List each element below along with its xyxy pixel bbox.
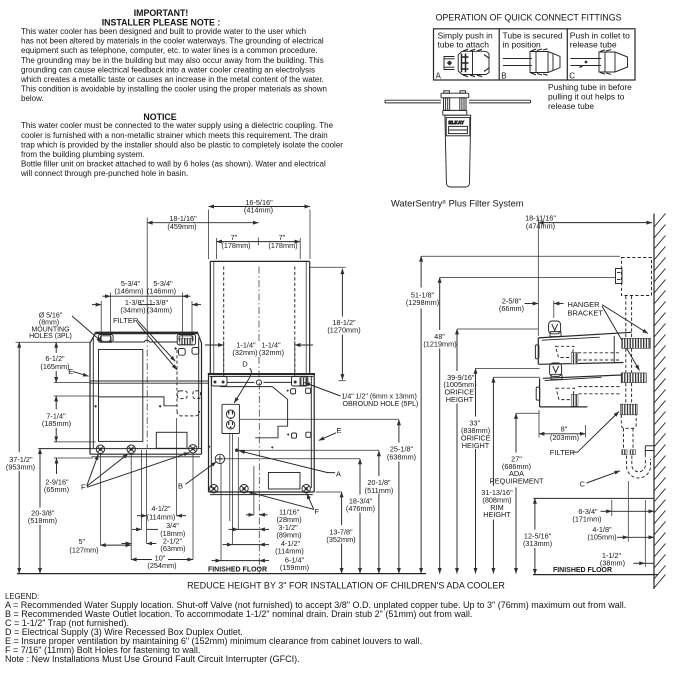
label obround hole note — [305, 383, 419, 408]
svg-text:equipment such as telephone, c: equipment such as telephone, computer, e… — [21, 46, 318, 55]
fitting drawing cell B — [503, 49, 560, 75]
note header IMPORTANT — [102, 8, 221, 27]
dim 31-13/16 rim — [481, 377, 540, 573]
dim 18-3/4 — [225, 459, 376, 574]
dim 2-1/2 left — [122, 536, 186, 553]
lower cooler drain dashed — [556, 388, 575, 399]
dim 4-1/2 right — [223, 539, 304, 555]
right cabinet top brackets — [212, 376, 308, 386]
svg-text:REQUIREMENT: REQUIREMENT — [490, 477, 544, 486]
waste outlet B symbol — [215, 454, 224, 463]
hanger bracket upper hatched — [622, 338, 651, 348]
svg-text:B: B — [501, 71, 506, 80]
hanger bracket lower hatched — [621, 373, 646, 383]
svg-text:(518mm): (518mm) — [28, 516, 57, 525]
svg-text:(203mm): (203mm) — [550, 433, 579, 442]
dim 37-1/2 — [6, 342, 90, 573]
pipe couplings above trap — [622, 450, 627, 455]
svg-text:release tube: release tube — [570, 39, 617, 49]
svg-text:WaterSentry® Plus Filter Syste: WaterSentry® Plus Filter System — [391, 199, 524, 209]
supply pipes dashed — [624, 296, 634, 450]
svg-text:tube to attach: tube to attach — [438, 39, 490, 49]
filter mounting rail — [385, 100, 531, 103]
dim 7 inch pair — [217, 233, 301, 259]
installer note paragraph — [20, 27, 327, 103]
dim 6-3/4 — [572, 500, 654, 523]
cell captions — [438, 31, 631, 50]
filter cartridge body — [445, 115, 471, 187]
svg-text:HEIGHT: HEIGHT — [462, 441, 490, 450]
dim 12-5/16 — [523, 498, 552, 574]
cell letters A B C — [436, 71, 576, 80]
dim 51-1/8 — [406, 256, 439, 573]
svg-text:E: E — [68, 367, 73, 376]
bottle filler chase — [210, 261, 309, 378]
fitting drawing cell C — [571, 50, 628, 75]
svg-text:HEIGHT: HEIGHT — [446, 395, 474, 404]
svg-text:pulling it out helps to: pulling it out helps to — [548, 92, 625, 102]
svg-text:has not been altered by materi: has not been altered by materials in the… — [21, 37, 324, 46]
right cabinet interior contour — [220, 387, 287, 438]
svg-text:(1270mm): (1270mm) — [327, 326, 360, 335]
svg-text:Bottle filler unit on bracket: Bottle filler unit on bracket attached t… — [21, 160, 326, 169]
svg-text:1/4" 1/2" (6mm x 13mm): 1/4" 1/2" (6mm x 13mm) — [342, 393, 417, 400]
fitting drawing cell A — [444, 49, 489, 76]
svg-text:(89mm): (89mm) — [276, 530, 301, 539]
svg-text:INSTALLER PLEASE NOTE :: INSTALLER PLEASE NOTE : — [102, 17, 221, 27]
svg-text:(65mm): (65mm) — [44, 485, 69, 494]
filter head bracket — [441, 91, 469, 115]
dim 18-1/2 vertical — [311, 267, 361, 381]
dim 3-1/2 right — [229, 523, 302, 540]
upper cooler bubbler — [549, 321, 561, 337]
svg-text:below.: below. — [21, 94, 44, 103]
dim 2-5/8 — [499, 297, 564, 318]
bottom dim verticals right cabinet — [221, 383, 259, 574]
right cabinet louver — [268, 473, 300, 490]
svg-text:(146mm): (146mm) — [147, 286, 176, 295]
recessed supply box dashed — [616, 258, 652, 296]
svg-text:(171mm): (171mm) — [572, 514, 601, 523]
left cabinet outline — [38, 332, 201, 457]
svg-text:Ø 5/16": Ø 5/16" — [39, 312, 63, 319]
svg-text:OPERATION OF QUICK CONNECT FIT: OPERATION OF QUICK CONNECT FITTINGS — [435, 13, 621, 23]
left cabinet filter recess dashed — [177, 350, 201, 416]
svg-text:which creates a metallic taste: which creates a metallic taste or causes… — [20, 75, 324, 84]
svg-text:(953mm): (953mm) — [6, 462, 35, 471]
dim 33 orifice — [461, 368, 540, 573]
left cabinet louver — [156, 432, 187, 448]
pushing tube note — [548, 82, 632, 111]
left cabinet bolt holes — [96, 445, 197, 454]
svg-text:OBROUND HOLE (5PL): OBROUND HOLE (5PL) — [343, 401, 419, 408]
right cabinet outline — [208, 374, 315, 495]
dim 4-1/2 left — [137, 504, 186, 521]
svg-text:Pushing tube in before: Pushing tube in before — [548, 82, 632, 92]
svg-text:(159mm): (159mm) — [280, 563, 309, 572]
lower cooler body — [536, 374, 640, 407]
dim 25-1/8 — [240, 419, 416, 573]
dim 5-3/4 pair — [101, 279, 192, 341]
svg-text:(63mm): (63mm) — [160, 544, 185, 553]
dim 18-11/16 — [525, 213, 652, 336]
dim 27 ADA — [490, 413, 544, 573]
inline filter hatched head — [620, 404, 637, 415]
svg-text:C: C — [580, 479, 586, 488]
dim 8 inch — [539, 410, 586, 442]
svg-text:A: A — [436, 71, 442, 80]
svg-text:Note : New Installations Must: Note : New Installations Must Use Ground… — [5, 654, 300, 664]
svg-text:A: A — [336, 469, 341, 478]
svg-text:FINISHED FLOOR: FINISHED FLOOR — [208, 566, 267, 573]
svg-text:REDUCE HEIGHT BY 3" FOR INSTAL: REDUCE HEIGHT BY 3" FOR INSTALLATION OF … — [187, 581, 505, 591]
dim 48 — [423, 278, 456, 574]
dim 6-1/2 — [40, 342, 90, 382]
upper cooler body — [535, 332, 631, 364]
right cabinet obround holes — [291, 388, 311, 438]
dim 39-9/16 orifice — [443, 329, 538, 574]
label D with leader — [234, 360, 251, 403]
dim 20-3/8 — [28, 449, 57, 574]
svg-text:E: E — [337, 426, 342, 435]
svg-text:(459mm): (459mm) — [167, 222, 196, 231]
svg-text:(352mm): (352mm) — [326, 535, 355, 544]
trap dashed — [627, 456, 651, 479]
svg-text:cooler is furnished with a non: cooler is furnished with a non-metallic … — [21, 131, 328, 140]
svg-text:This water cooler has been des: This water cooler has been designed and … — [21, 27, 306, 36]
dim 16-5/16 top — [209, 198, 310, 259]
inline filter body dashed — [621, 415, 636, 429]
dim 13-7/8 — [316, 492, 356, 574]
dim 3/4 left — [132, 521, 185, 538]
reference dots — [94, 340, 210, 448]
notice paragraph — [20, 121, 343, 178]
svg-text:(66mm): (66mm) — [499, 304, 524, 313]
dim 11/16 — [246, 507, 302, 524]
svg-text:FILTER: FILTER — [113, 316, 139, 325]
svg-text:B: B — [178, 482, 183, 491]
wall line with hatching — [654, 214, 666, 590]
dim 1-1/2 — [600, 500, 654, 568]
svg-text:grounding can cause electrical: grounding can cause electrical feedback … — [21, 65, 315, 74]
datum line — [533, 497, 654, 499]
reference line to outlet — [440, 277, 616, 279]
svg-text:This condition is avoidable by: This condition is avoidable by installin… — [21, 85, 327, 94]
reference line to box top — [421, 255, 620, 257]
dim 4-1/8 — [587, 481, 654, 542]
label F right with leaders — [247, 492, 319, 516]
svg-text:(474mm): (474mm) — [526, 221, 555, 230]
dim 18-1/16 — [147, 214, 258, 332]
svg-text:HOLES (3PL): HOLES (3PL) — [29, 333, 72, 340]
quick connect box frame — [434, 29, 636, 80]
finished floor line main — [17, 573, 426, 575]
label mounting holes — [29, 312, 102, 342]
svg-text:(127mm): (127mm) — [69, 545, 98, 554]
svg-text:(114mm): (114mm) — [147, 512, 176, 521]
left cabinet interior panel — [90, 350, 209, 442]
svg-text:The grounding may be in the bu: The grounding may be in the building but… — [21, 56, 324, 65]
upper cooler drain dashed — [556, 346, 575, 357]
svg-text:(638mm): (638mm) — [387, 452, 416, 461]
dim 6-1/4 — [212, 555, 310, 572]
label F left with leaders — [81, 453, 189, 492]
dim 2-9/16 — [44, 458, 93, 494]
svg-text:(8mm): (8mm) — [39, 319, 59, 326]
svg-text:(34mm): (34mm) — [120, 305, 145, 314]
svg-text:(146mm): (146mm) — [114, 286, 143, 295]
svg-text:C: C — [569, 71, 575, 80]
svg-text:(32mm): (32mm) — [232, 348, 257, 357]
svg-text:ELKAY: ELKAY — [449, 120, 465, 125]
svg-text:(114mm): (114mm) — [275, 547, 304, 556]
drain stub into wall — [645, 446, 654, 457]
label hanger bracket — [568, 300, 649, 371]
svg-text:in position: in position — [503, 39, 542, 49]
dim 20-1/8 — [238, 450, 393, 573]
dim 1-1/4 pair — [205, 341, 313, 377]
svg-text:(105mm): (105mm) — [587, 533, 616, 542]
svg-text:(254mm): (254mm) — [147, 561, 176, 570]
svg-text:(414mm): (414mm) — [244, 206, 273, 215]
svg-text:from the building plumbing sys: from the building plumbing system. — [21, 150, 145, 159]
left cabinet center notch — [113, 340, 177, 342]
svg-text:D: D — [242, 360, 248, 369]
svg-text:FILTER: FILTER — [550, 448, 576, 457]
svg-text:(32mm): (32mm) — [259, 348, 284, 357]
left cabinet top brackets — [98, 335, 195, 345]
lower cooler bubbler — [550, 363, 562, 380]
svg-text:This water cooler must be conn: This water cooler must be connected to t… — [21, 121, 334, 130]
duplex outlet D — [222, 404, 239, 433]
dim 1-3/8 pair — [92, 298, 201, 314]
svg-text:will connect through pre-punch: will connect through pre-punched hole in… — [20, 169, 188, 178]
svg-text:(165mm): (165mm) — [40, 362, 69, 371]
svg-text:(185mm): (185mm) — [42, 419, 71, 428]
svg-text:F: F — [315, 507, 320, 516]
dim 7-1/4 — [42, 396, 99, 442]
bottom dim verticals left cabinet — [100, 418, 193, 560]
left cabinet center line — [146, 336, 148, 448]
svg-text:HEIGHT: HEIGHT — [483, 510, 511, 519]
svg-text:(476mm): (476mm) — [346, 504, 375, 513]
svg-text:(511mm): (511mm) — [365, 486, 394, 495]
svg-text:(1298mm): (1298mm) — [406, 298, 439, 307]
svg-text:F: F — [81, 483, 86, 492]
label FILTER with leaders — [113, 316, 177, 370]
svg-text:(313mm): (313mm) — [523, 539, 552, 548]
svg-text:(178mm): (178mm) — [268, 241, 297, 250]
svg-text:trap which is provided by the: trap which is provided by the installer … — [21, 140, 343, 149]
right cabinet bolt holes — [210, 485, 311, 493]
svg-text:BRACKET: BRACKET — [568, 309, 604, 318]
svg-text:(1219mm): (1219mm) — [423, 340, 456, 349]
dim 10 inch — [131, 553, 193, 570]
svg-text:(178mm): (178mm) — [221, 241, 250, 250]
svg-text:release tube: release tube — [548, 101, 594, 111]
svg-text:(34mm): (34mm) — [147, 305, 172, 314]
dim 5 inch — [69, 537, 131, 554]
svg-text:FINISHED FLOOR: FINISHED FLOOR — [553, 567, 612, 574]
left cabinet obround holes — [178, 348, 198, 356]
